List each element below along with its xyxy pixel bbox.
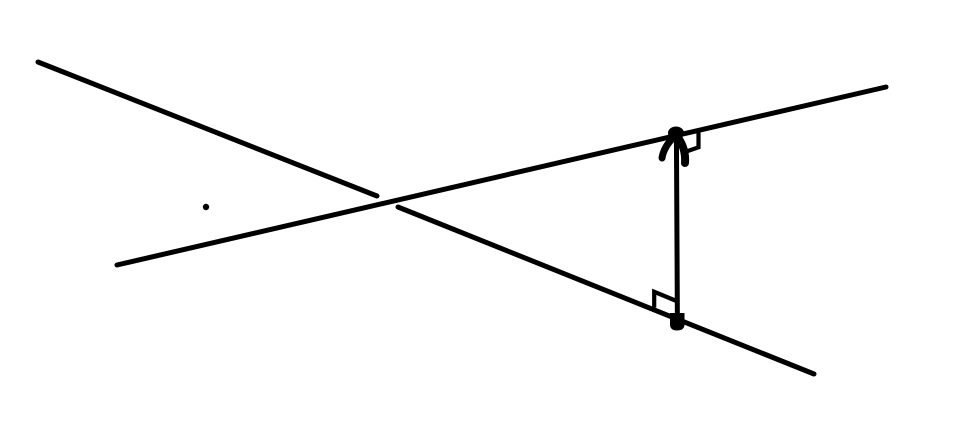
arrowhead: upward arrow left barb [662, 136, 675, 158]
arrowhead: upward arrow right barb [679, 139, 685, 163]
wire: line l upper-left segment (ends at crossing gap) [38, 62, 377, 196]
node: stray point dot at left [203, 204, 209, 210]
right-angle mark at bottom (left side of segment, above line l) [654, 292, 676, 308]
wire: vertical distance segment between the two lines [676, 133, 677, 321]
wire: transversal line m (lower-left to upper-right, continuous) [117, 87, 886, 265]
node: top endpoint blob on line m [668, 127, 684, 140]
right-angle mark at top (right side of segment, under line m) [682, 130, 699, 153]
node: bottom endpoint blob / down arrowhead on line l [670, 313, 685, 331]
wire: line l lower-right segment (resumes after crossing gap) [398, 207, 814, 374]
